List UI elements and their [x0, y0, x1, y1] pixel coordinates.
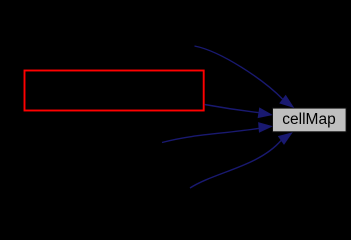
svg-text:cellMap: cellMap [282, 111, 335, 128]
